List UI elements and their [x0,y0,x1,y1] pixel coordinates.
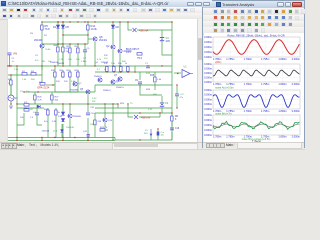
junction [16,140,17,141]
wire [77,70,79,92]
svg-text:22n: 22n [83,61,86,63]
transient toolbar rows [203,8,304,15]
wire [10,75,12,95]
wire [61,133,63,138]
junction [112,65,113,66]
wire [69,44,71,48]
diode D4 [61,130,64,133]
svg-text:10.000m: 10.000m [204,93,212,97]
svg-text:V2: V2 [165,101,169,105]
svg-text:-10.000m: -10.000m [204,102,212,106]
wire [57,44,59,47]
svg-text:-10.000m: -10.000m [204,75,212,79]
resistor R22 [94,120,97,125]
wire [62,22,64,66]
svg-text:C16: C16 [175,128,180,130]
junction [106,71,107,72]
wire [94,113,96,120]
junction [119,21,120,22]
resistor R9 [137,53,142,56]
transistor Q6 [111,80,115,84]
svg-text:1N4448: 1N4448 [57,63,65,65]
wire [157,136,159,141]
capacitor C2 [175,93,179,95]
svg-text:-20.000m: -20.000m [204,107,212,111]
junction [139,112,140,113]
svg-text:20.000m: 20.000m [204,35,212,39]
transient title bar [203,1,304,8]
resistor R31 [113,67,116,72]
capacitor C9 [138,81,142,83]
wire [95,84,172,86]
wire [10,101,12,105]
junction [147,65,148,66]
junction [62,21,63,22]
wire top supply rail [42,21,172,23]
junction [62,137,63,138]
main toolbar row 1 [0,7,213,14]
junction [16,103,17,104]
resistor R15 [154,77,157,82]
junction [41,140,42,141]
junction [84,21,85,22]
svg-text:0.1V: 0.1V [126,51,131,54]
junction [94,21,95,22]
capacitor C11 polarized [157,132,160,136]
junction [69,43,70,44]
transient analysis window frame [202,0,305,148]
svg-text:0.2V: 0.2V [92,98,97,100]
junction [62,43,63,44]
wire [62,124,64,138]
junction [62,65,63,66]
wire lower rail [17,103,118,105]
junction [9,65,10,66]
junction [112,139,113,140]
svg-text:2.000m: 2.000m [292,110,300,113]
wire [139,116,160,118]
svg-text:1.800m: 1.800m [278,110,286,113]
schematic caption buttons overlay [185,0,212,7]
wire [9,55,11,66]
plot 4 grid [213,115,300,135]
battery V3 [160,37,164,39]
junction [127,71,128,72]
transistor Q9 [98,78,102,82]
wire [154,85,156,90]
wire [119,22,121,48]
transient tab bar [203,142,304,149]
wire [34,101,36,105]
wire [127,104,129,113]
wire [157,130,159,132]
junction [87,140,88,141]
svg-text:2N4401: 2N4401 [103,90,111,92]
schematic window title bar [0,0,213,8]
junction [113,71,114,72]
junction [10,74,11,75]
junction [112,103,113,104]
svg-text:R23 75: R23 75 [100,127,108,129]
wire [139,85,141,88]
junction [87,21,88,22]
svg-text:Q2: Q2 [106,44,110,48]
resistor R13 [77,72,80,77]
wire [137,29,172,31]
wire [161,107,163,113]
junction [7,65,8,66]
toolbar row 1 icons [2,8,7,13]
svg-text:D6: D6 [116,25,120,29]
wire [10,78,12,80]
schematic editor canvas [7,19,197,142]
plot 2 grid [213,64,300,82]
wire [87,22,89,44]
wire [55,108,57,138]
transistor Q3 2N4403 [118,49,122,53]
wire [100,129,108,131]
junction [62,21,63,22]
svg-text:(2.2): (2.2) [53,131,57,133]
junction [176,107,177,108]
wire [62,138,64,141]
transistor Q7 [118,77,122,81]
wire [23,108,25,110]
junction [41,21,42,22]
svg-text:0.000m: 0.000m [204,97,212,101]
wire [94,85,96,92]
schematic horizontal scrollbar [112,143,198,150]
resistor R4v [10,80,13,85]
svg-text:76.8: 76.8 [45,27,51,31]
wire [171,132,173,140]
plot 4 waveform noise B [213,121,299,129]
svg-text:OPA-2134: OPA-2134 [37,86,50,90]
wire [63,34,88,36]
svg-text:10.0k: 10.0k [91,27,98,31]
transient window icon [216,2,221,7]
wire [112,104,114,140]
svg-text:76.8k: 76.8k [45,49,51,51]
wire [69,70,71,92]
wire [10,86,12,95]
wire [69,119,71,138]
wire [127,71,129,74]
svg-text:20.000m: 20.000m [204,88,212,92]
wire [139,72,141,80]
svg-text:2N4401: 2N4401 [94,76,102,78]
app bottom edge [0,149,305,151]
transient title text [222,2,254,7]
schematic window icon [1,1,6,6]
wire [161,96,163,103]
wire [37,115,42,125]
transient caption buttons [277,2,284,7]
wire bottom ground rail B [115,139,172,141]
plot 3 grid [213,90,300,109]
junction [171,21,172,22]
wire [77,44,79,48]
svg-text:-20.000m: -20.000m [204,55,212,59]
resistor R20 [47,110,50,115]
transistor Q8 2N4401 [93,37,97,41]
wire [57,53,59,66]
op-amp buffer U1 [182,70,190,78]
wire [171,122,173,126]
diode D7 [37,105,40,108]
wire [117,104,119,108]
wire [104,123,106,130]
junction [57,21,58,22]
resistor R16 [24,104,29,107]
svg-text:v(RL): v(RL) [215,60,221,64]
junction [157,128,158,129]
resistor R32 [120,67,123,72]
junction [171,112,172,113]
resistor R30 [106,67,109,72]
svg-text:1.800m: 1.800m [278,83,286,86]
junction [16,137,17,138]
svg-text:D1: D1 [53,25,57,29]
svg-text:V1: V1 [15,96,19,100]
diode D5 [61,25,64,28]
wire bottom ground rail C [8,140,115,142]
wire [119,54,121,66]
svg-text:0.000m: 0.000m [204,123,212,127]
wire [41,48,43,66]
transistor Q10 [103,118,107,122]
current probe X2 [134,115,138,119]
wire [128,113,133,117]
wire [95,107,172,109]
wire [128,22,132,30]
wire op-amp input [174,72,181,74]
diode D1 [56,25,59,28]
wire lower mid rail [95,112,172,114]
svg-text:438 mV: 438 mV [141,116,150,120]
svg-text:1.780m: 1.780m [213,135,221,138]
junction [77,21,78,22]
svg-text:VIN: VIN [13,53,17,56]
svg-text:-10.000m: -10.000m [204,50,212,54]
svg-text:2N5088: 2N5088 [73,116,81,118]
wire [112,22,114,44]
junction [77,43,78,44]
svg-text:40V: 40V [166,39,171,43]
capacitor C5 [83,49,87,51]
svg-text:1.790m: 1.790m [244,58,252,61]
wire [61,124,63,130]
resistor R7 [62,47,65,52]
svg-text:7.5k: 7.5k [111,63,115,65]
wire [54,66,56,70]
wire [113,71,115,74]
battery V2 [160,102,164,104]
transient plot area [204,33,304,142]
wire [106,71,108,74]
capacitor C12 [87,134,91,136]
resistor R5 [41,25,44,30]
junction [87,103,88,104]
wire [40,66,42,85]
svg-text:1N4148: 1N4148 [66,127,74,129]
wire rail y44 [42,43,88,45]
svg-text:1.800m: 1.800m [278,135,286,138]
diode D10 [61,112,64,115]
plot 2 waveform v(RL2) [213,70,299,76]
wire [154,83,156,85]
wire [62,70,64,78]
wire left vertical [16,66,18,138]
wire [134,66,136,72]
wire [47,108,49,138]
transistor Q9 2N5088 [68,114,72,118]
junction [37,91,38,92]
wire [62,53,64,66]
resistor R11 [62,72,65,77]
junction [41,65,42,66]
svg-text:noise A(v)+0.5m: noise A(v)+0.5m [215,86,234,90]
wire [87,138,89,141]
wire [41,138,43,141]
wire [36,108,38,113]
ground [9,106,13,108]
wire [41,66,43,70]
svg-text:1.795m: 1.795m [261,110,269,113]
main application window background [0,0,305,150]
wire [162,41,172,55]
wire [87,118,89,138]
wire mid rail 2 [95,71,172,73]
resistor R6 [57,47,60,52]
junction [161,65,162,66]
junction [104,103,105,104]
resistor R3 [31,73,36,76]
svg-text:0.000m: 0.000m [204,45,212,49]
svg-text:10.000m: 10.000m [204,118,212,122]
capacitor C10 [86,112,90,114]
svg-text:-20.000m: -20.000m [204,133,212,137]
wire [127,66,129,72]
junction [62,140,63,141]
main toolbar row 2 [0,13,213,20]
plot 1 waveform v(RL) [213,40,299,55]
junction [54,137,55,138]
junction [94,65,95,66]
plot 4 waveform baseline [213,124,299,127]
junction [87,34,88,35]
svg-text:1.800m: 1.800m [278,58,286,61]
wire [114,138,116,141]
wire [94,42,96,66]
transistor Q1 2N4403 [40,44,44,48]
junction [10,103,11,104]
svg-text:D5: D5 [66,25,70,29]
svg-text:Q8: Q8 [99,35,103,39]
wire input rail [8,74,42,76]
wire [16,138,18,141]
resistor R33 [127,67,130,72]
wire [46,84,55,86]
wire [17,107,44,109]
toolbar row 2 icons [2,14,7,19]
svg-text:2.000m: 2.000m [292,83,300,86]
wire [84,44,86,50]
schematic vertical scrollbar [197,19,202,142]
wire [17,113,24,125]
wire mid rail right [95,65,172,67]
junction [23,91,24,92]
svg-text:20.000m: 20.000m [204,62,212,66]
wire [104,104,106,117]
wire [51,101,53,105]
resistor R21 [55,110,58,115]
svg-text:10.000m: 10.000m [204,40,212,44]
wire rail y92 [24,91,95,93]
junction [119,65,120,66]
capacitor C1 input [8,52,12,54]
svg-text:10.000m: 10.000m [204,66,212,70]
wire [58,22,63,44]
svg-text:1.785m: 1.785m [226,135,234,138]
svg-text:2N4401: 2N4401 [99,40,108,42]
wire [84,52,86,66]
junction [87,137,88,138]
wire [87,95,89,104]
junction [112,21,113,22]
junction [62,103,63,104]
wire [77,54,79,66]
wire [161,30,163,37]
svg-text:2N5088: 2N5088 [101,62,109,64]
svg-text:2.000m: 2.000m [292,58,300,61]
resistor R8 load [171,116,174,121]
svg-text:2.000m: 2.000m [292,135,300,138]
wire [51,92,53,95]
junction [117,103,118,104]
wire [34,92,36,95]
svg-text:2200u: 2200u [90,124,97,126]
resistor R17 [69,48,72,53]
wire mid rail left [8,65,95,67]
junction [10,65,11,66]
resistor R2 [40,83,45,86]
svg-text:10k: 10k [48,61,51,63]
plot 1 grid [213,37,300,57]
junction [52,84,53,85]
junction [54,65,55,66]
schematic window title text [8,1,169,6]
resistor R24 [24,109,29,112]
svg-text:1.795m: 1.795m [261,83,269,86]
junction [57,21,58,22]
junction [127,71,128,72]
node OUT junction [177,73,178,74]
junction [176,84,177,85]
svg-text:R15: R15 [150,75,155,77]
svg-text:2N4403: 2N4403 [34,39,43,42]
svg-text:1N: 1N [30,33,33,35]
svg-text:1.795m: 1.795m [261,58,269,61]
junction [41,137,42,138]
resistor R27 [51,95,54,100]
resistor R26 [34,95,37,100]
wire [176,96,178,108]
svg-text:1N4148: 1N4148 [42,131,50,133]
junction [159,112,160,113]
diode D11 [61,119,64,122]
capacitor C16 [170,127,174,129]
